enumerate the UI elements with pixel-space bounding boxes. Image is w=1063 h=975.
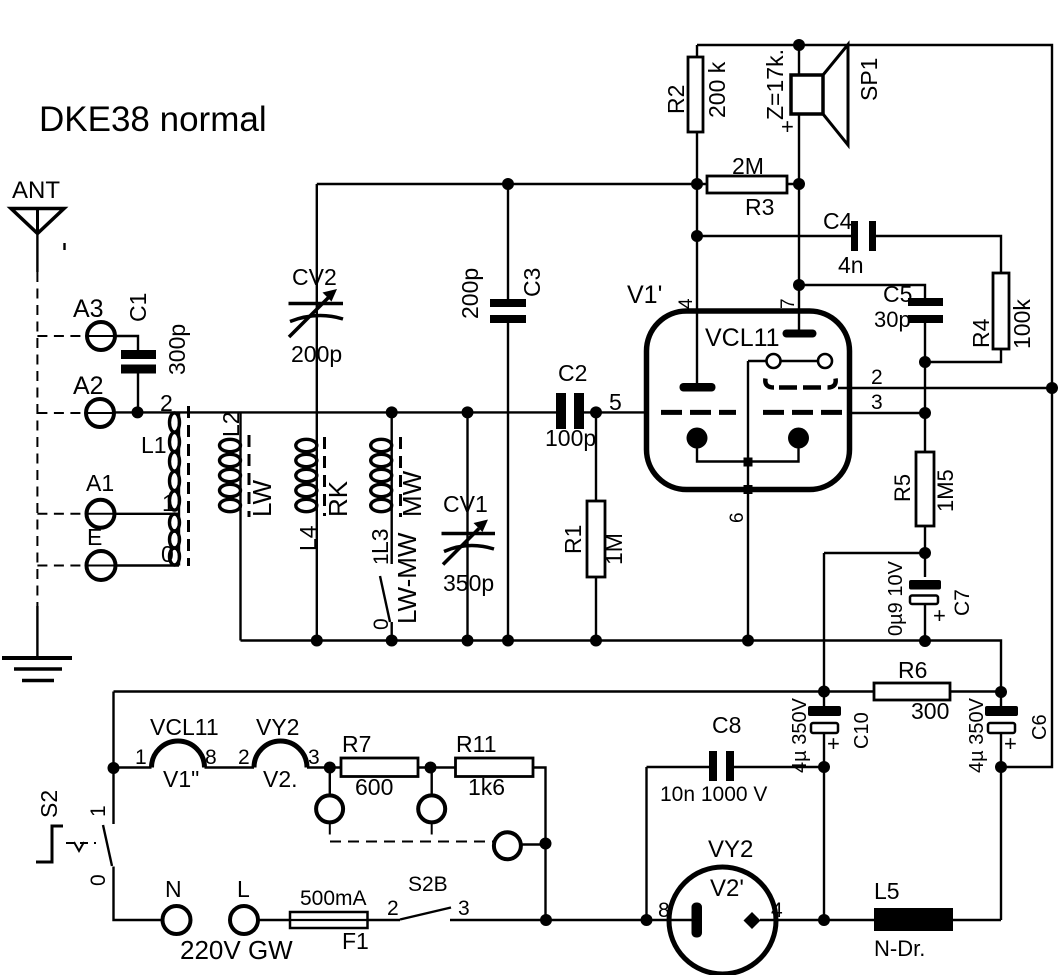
svg-text:V2.: V2. [263,766,298,792]
svg-text:3: 3 [308,746,320,769]
svg-text:200 k: 200 k [704,61,730,118]
svg-text:VCL11: VCL11 [705,324,780,352]
svg-text:C3: C3 [519,268,545,297]
svg-text:8: 8 [658,899,670,922]
svg-text:+: + [933,603,946,628]
svg-text:1: 1 [370,553,393,565]
svg-text:1M5: 1M5 [933,469,958,512]
svg-text:L1: L1 [141,432,167,458]
svg-text:C1: C1 [125,293,151,322]
svg-text:300: 300 [911,698,949,724]
svg-text:A2: A2 [73,372,104,400]
svg-text:0: 0 [370,618,393,630]
svg-text:2: 2 [387,897,399,920]
svg-text:10n 1000 V: 10n 1000 V [660,783,767,806]
svg-text:100p: 100p [545,425,596,451]
svg-text:C10: C10 [851,712,873,749]
svg-text:N-Dr.: N-Dr. [874,936,925,961]
svg-text:CV1: CV1 [443,491,488,517]
svg-text:5: 5 [609,389,622,415]
svg-text:4n: 4n [838,252,864,278]
svg-text:DKE38 normal: DKE38 normal [39,100,267,139]
svg-text:E: E [87,524,102,550]
svg-text:1: 1 [162,490,175,516]
svg-text:LW-MW: LW-MW [392,532,422,624]
svg-text:MW: MW [397,470,427,517]
svg-text:600: 600 [355,774,393,800]
svg-text:3: 3 [458,897,470,920]
svg-text:L2: L2 [218,411,244,437]
svg-text:1k6: 1k6 [468,774,505,800]
svg-text:1M: 1M [601,533,627,565]
svg-text:C7: C7 [951,589,974,616]
svg-text:VCL11: VCL11 [150,714,219,740]
svg-text:Z=17k.: Z=17k. [762,49,788,120]
svg-text:1: 1 [87,805,110,817]
svg-text:0µ9 10V: 0µ9 10V [885,560,907,636]
svg-text:30p: 30p [874,307,911,332]
svg-text:CV2: CV2 [292,264,337,290]
svg-text:V1": V1" [163,766,199,792]
svg-text:0: 0 [161,541,174,567]
svg-text:1: 1 [135,746,147,769]
svg-text:R6: R6 [898,657,927,683]
svg-text:R2: R2 [663,85,689,114]
svg-text:200p: 200p [457,268,483,319]
svg-text:+: + [827,731,840,756]
svg-text:2: 2 [238,746,250,769]
svg-text:V1': V1' [627,281,662,309]
svg-text:500mA: 500mA [300,887,367,910]
svg-text:A3: A3 [73,295,104,323]
svg-text:F1: F1 [342,928,369,954]
svg-text:6: 6 [727,512,748,523]
svg-text:7: 7 [778,298,799,309]
svg-text:L5: L5 [874,878,900,904]
svg-text:V2': V2' [710,875,744,902]
svg-text:C6: C6 [1029,714,1051,740]
svg-text:350p: 350p [443,570,494,596]
svg-text:ANT: ANT [12,177,60,204]
svg-text:4µ 350V: 4µ 350V [966,697,988,773]
svg-text:SP1: SP1 [856,58,882,101]
svg-text:RK: RK [323,480,353,517]
svg-text:R4: R4 [968,318,994,348]
svg-text:VY2: VY2 [256,714,299,740]
svg-text:S2: S2 [36,790,62,818]
svg-text:300p: 300p [164,324,190,375]
svg-text:220V GW: 220V GW [180,935,293,965]
svg-text:C2: C2 [558,360,587,386]
svg-text:2: 2 [160,390,173,416]
svg-text:3: 3 [871,391,883,414]
svg-text:L3: L3 [367,528,393,554]
svg-text:L: L [237,876,250,902]
svg-text:A1: A1 [86,470,114,496]
svg-text:2: 2 [871,366,883,389]
svg-text:R11: R11 [456,731,497,757]
svg-text:8: 8 [205,746,217,769]
svg-text:R3: R3 [745,194,774,220]
svg-text:2M: 2M [732,153,764,179]
svg-text:R7: R7 [342,731,371,757]
svg-text:C4: C4 [823,208,853,234]
svg-text:4µ 350V: 4µ 350V [789,697,811,773]
svg-text:C5: C5 [883,281,912,307]
svg-text:L4: L4 [295,525,321,551]
svg-text:4: 4 [771,899,783,922]
svg-text:R1: R1 [560,525,586,554]
svg-text:4: 4 [676,298,697,309]
svg-text:VY2: VY2 [708,836,753,863]
svg-text:N: N [165,876,182,902]
svg-text:C8: C8 [712,712,741,738]
svg-text:S2B: S2B [408,873,448,896]
svg-text:100k: 100k [1009,299,1035,349]
svg-text:LW: LW [247,479,277,517]
svg-text:+: + [1004,731,1017,756]
svg-text:200p: 200p [291,341,342,367]
svg-text:R5: R5 [890,474,915,502]
svg-text:0: 0 [87,874,110,886]
